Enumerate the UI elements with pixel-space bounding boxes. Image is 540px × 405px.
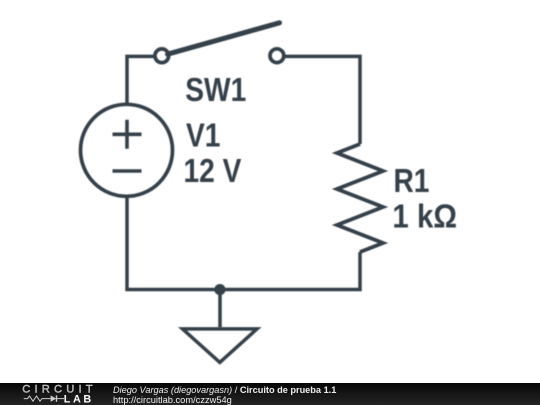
ground symbol triangle	[183, 329, 258, 363]
svg-text:V1: V1	[186, 116, 220, 154]
wire resistor bottom to rail	[127, 195, 360, 290]
junction node dot	[214, 284, 225, 295]
svg-text:LAB: LAB	[64, 394, 94, 405]
svg-text:12 V: 12 V	[184, 152, 242, 190]
switch SW1 lever	[168, 23, 280, 54]
svg-text:SW1: SW1	[185, 70, 246, 108]
resistor R1 zigzag	[337, 144, 383, 252]
logo diode glyph	[51, 395, 57, 401]
svg-text:R1: R1	[394, 162, 430, 200]
V1 minus sign	[113, 169, 142, 173]
label SW1	[185, 70, 246, 108]
voltage source V1 circle	[81, 104, 173, 196]
switch SW1 left terminal	[155, 49, 169, 63]
svg-text:1 kΩ: 1 kΩ	[392, 197, 457, 235]
switch SW1 right terminal	[270, 49, 284, 63]
V1 plus sign	[113, 120, 142, 149]
value 12 V	[184, 152, 242, 190]
svg-text:http://circuitlab.com/czzw54g: http://circuitlab.com/czzw54g	[113, 395, 232, 405]
ground stem wire	[218, 290, 222, 328]
wire V1 top to switch	[127, 56, 154, 106]
label R1	[394, 162, 430, 200]
label V1	[186, 116, 220, 154]
svg-text:Diego Vargas (diegovargasn) /: Diego Vargas (diegovargasn) / Circuito d…	[113, 385, 336, 395]
wire switch to resistor top	[285, 56, 360, 144]
value 1 kOhm	[392, 197, 457, 235]
logo resistor glyph	[24, 396, 51, 401]
